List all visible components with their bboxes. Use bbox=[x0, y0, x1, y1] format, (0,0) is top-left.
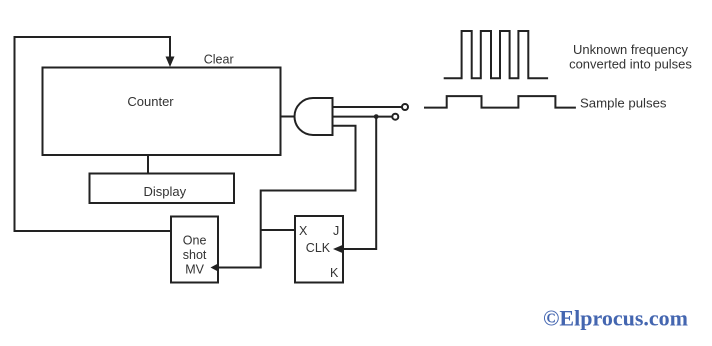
svg-text:MV: MV bbox=[185, 263, 204, 277]
svg-text:converted into pulses: converted into pulses bbox=[569, 57, 692, 72]
svg-text:Counter: Counter bbox=[127, 94, 174, 109]
svg-text:shot: shot bbox=[183, 248, 207, 262]
svg-text:Display: Display bbox=[143, 184, 186, 199]
svg-text:K: K bbox=[330, 266, 339, 280]
svg-text:One: One bbox=[183, 234, 207, 248]
svg-text:©Elprocus.com: ©Elprocus.com bbox=[543, 306, 688, 331]
svg-text:J: J bbox=[333, 224, 339, 238]
svg-text:Sample pulses: Sample pulses bbox=[580, 95, 667, 110]
svg-text:Clear: Clear bbox=[204, 53, 234, 67]
svg-text:Unknown frequency: Unknown frequency bbox=[573, 42, 688, 57]
svg-text:CLK: CLK bbox=[306, 241, 331, 255]
svg-text:X: X bbox=[299, 224, 308, 238]
